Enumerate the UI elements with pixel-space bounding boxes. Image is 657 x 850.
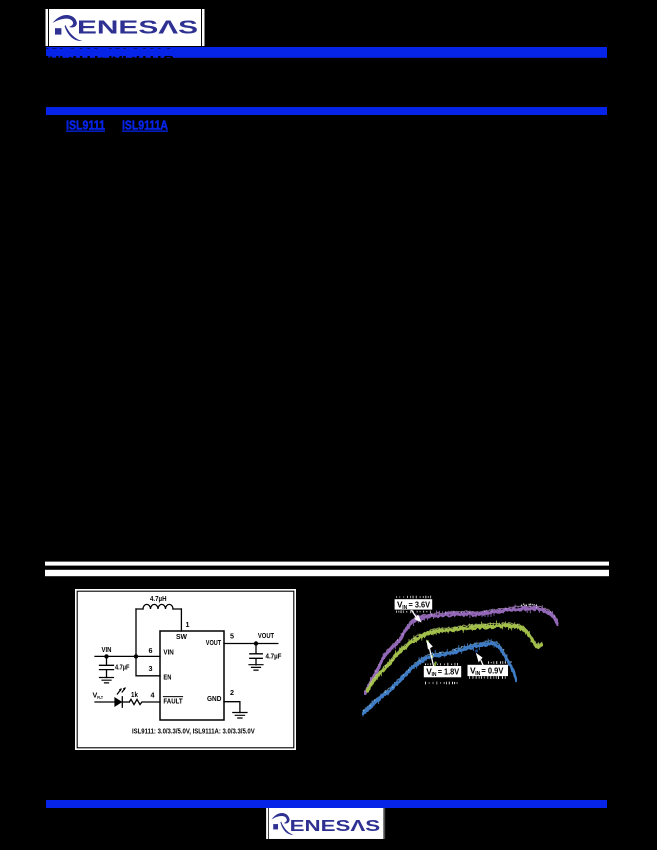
svg-text:5: 5: [230, 632, 234, 641]
svg-text:FAULT: FAULT: [163, 698, 182, 706]
svg-text:4.7µF: 4.7µF: [115, 664, 129, 672]
svg-text:EN: EN: [163, 674, 171, 682]
svg-text:= 1.8V: = 1.8V: [438, 667, 460, 677]
svg-text:6: 6: [149, 646, 153, 655]
svg-text:4.7µH: 4.7µH: [150, 596, 167, 604]
svg-text:VOUT: VOUT: [258, 633, 274, 641]
svg-text:= 3.6V: = 3.6V: [409, 600, 431, 609]
svg-text:IN: IN: [432, 672, 437, 678]
svg-text:ISL9111A: ISL9111A: [122, 118, 168, 133]
svg-text:FLT: FLT: [97, 695, 103, 701]
svg-text:IN: IN: [402, 605, 407, 611]
svg-text:GND: GND: [207, 696, 221, 703]
svg-text:1k: 1k: [131, 691, 138, 699]
svg-text:VOUT: VOUT: [206, 639, 221, 647]
svg-text:VIN: VIN: [102, 647, 112, 655]
svg-text:= 0.9V: = 0.9V: [481, 665, 503, 675]
svg-text:ISL9111: 3.0/3.3/5.0V, ISL9111: ISL9111: 3.0/3.3/5.0V, ISL9111A: 3.0/3.3…: [132, 728, 255, 736]
svg-text:IN: IN: [475, 671, 480, 677]
svg-text:ENESΛS: ENESΛS: [290, 818, 381, 835]
svg-text:3: 3: [149, 664, 153, 673]
svg-text:2: 2: [230, 688, 234, 697]
svg-text:4.7µF: 4.7µF: [266, 653, 282, 661]
svg-text:VIN: VIN: [163, 649, 174, 656]
svg-text:SW: SW: [176, 634, 187, 641]
svg-text:1: 1: [186, 620, 190, 629]
svg-text:4: 4: [151, 691, 155, 700]
svg-text:ENESΛS: ENESΛS: [77, 17, 198, 38]
svg-text:ISL9111: ISL9111: [66, 118, 105, 133]
